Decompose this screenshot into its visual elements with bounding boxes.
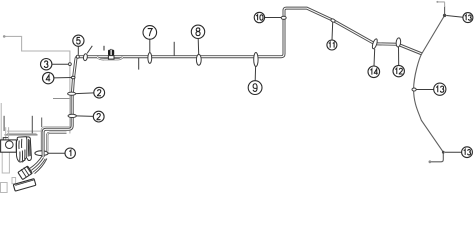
callout 5 [73, 35, 84, 46]
callout 2 upper [94, 87, 105, 98]
junction node at pipe tee (5) [76, 55, 79, 58]
tick on pipe (above, x174.2) [173, 42, 175, 56]
leader line 8 [197, 39, 200, 55]
callout 3 [41, 58, 52, 69]
callout 13 top [463, 13, 473, 23]
node on gray line (3) [69, 63, 72, 66]
gray body band horizontal (assembly top) [7, 131, 41, 133]
callout 2 lower [93, 111, 104, 122]
assembly: bell housing (hand shape) [16, 137, 31, 162]
node on slope (11) [330, 18, 335, 23]
body reference line (light gray, top left) [4, 36, 70, 133]
return tube at assembly [47, 133, 66, 152]
node bottom right (13 bottom) [442, 151, 445, 154]
gray hook end dot [436, 1, 438, 3]
callout 1 [65, 148, 75, 158]
gray rectangle outline bottom-left corner [1, 183, 8, 193]
leader line 10 [265, 17, 281, 19]
callout 7 [143, 26, 157, 40]
gray left body edge [0, 103, 2, 140]
callout 13 middle [434, 83, 446, 95]
fitting 7 [148, 53, 152, 64]
leader line 13 middle [416, 89, 433, 91]
callout 8 [191, 25, 204, 38]
assembly top dark line [5, 134, 38, 136]
gray rectangle outline left [2, 149, 9, 174]
fitting 12 [396, 38, 401, 48]
skid plate inner line [15, 180, 34, 185]
assembly: antenna line left [3, 116, 5, 131]
leader line 5 [77, 46, 79, 54]
callout 14 [368, 66, 380, 78]
node on riser (10) [281, 16, 286, 19]
leader line 1 [48, 152, 65, 154]
connector block C [108, 49, 114, 59]
fitting 9 [254, 53, 258, 67]
node top right (13 top) [443, 14, 446, 17]
leader line 3 [52, 63, 68, 65]
leader line 14 [373, 49, 376, 66]
gray clip rect [12, 178, 16, 184]
leader line 7 [149, 39, 151, 52]
leader line 13 bottom [445, 151, 462, 153]
callout 10 [254, 12, 264, 22]
assembly: antenna line right [31, 116, 33, 134]
connector bracket tick [103, 46, 105, 51]
leader line 9 [254, 67, 256, 81]
callout 13 bottom [462, 147, 473, 158]
leader line 2 upper [76, 92, 94, 95]
assembly: pump box [1, 138, 17, 153]
callout 11 [327, 40, 337, 50]
gray guide line along lower pipe [41, 127, 72, 151]
assembly: tilted canister bracket [18, 166, 32, 180]
node on branch (13 middle) [412, 88, 416, 91]
fitting 2 lower on riser [68, 114, 76, 117]
leader line 11 [331, 22, 334, 40]
fitting 8 [196, 54, 201, 65]
branch line right side (single) [414, 6, 445, 162]
tick on pipe (below, x138.7) [138, 58, 140, 70]
main fuel pipe (tube) [43, 8, 422, 157]
branch tail end dot [429, 160, 432, 163]
fitting 2 upper on riser [68, 92, 76, 95]
callout 4 [43, 72, 54, 83]
gray body stub line [53, 98, 70, 100]
gray body band vertical [6, 127, 9, 140]
assembly: tilted skid plate [13, 179, 36, 191]
fitting 14 [371, 38, 378, 49]
hanger tick at pipe corner [41, 118, 43, 128]
callout 12 [393, 65, 404, 76]
fitting 4 on riser [71, 76, 75, 79]
callout 9 [248, 81, 262, 95]
leader line 4 [54, 77, 71, 79]
assembly: hose bundle to sender [30, 156, 47, 174]
end cap dot of gray reference line [3, 35, 6, 38]
fitting near tee with tick [83, 46, 92, 61]
leader line 13 top [446, 16, 463, 18]
gray hook at top right [437, 2, 444, 7]
fitting 1 grommet [35, 151, 48, 156]
pipe lower strand dip at connector [97, 57, 123, 59]
leader line 12 [398, 47, 400, 65]
leader line 2 lower [77, 115, 94, 118]
